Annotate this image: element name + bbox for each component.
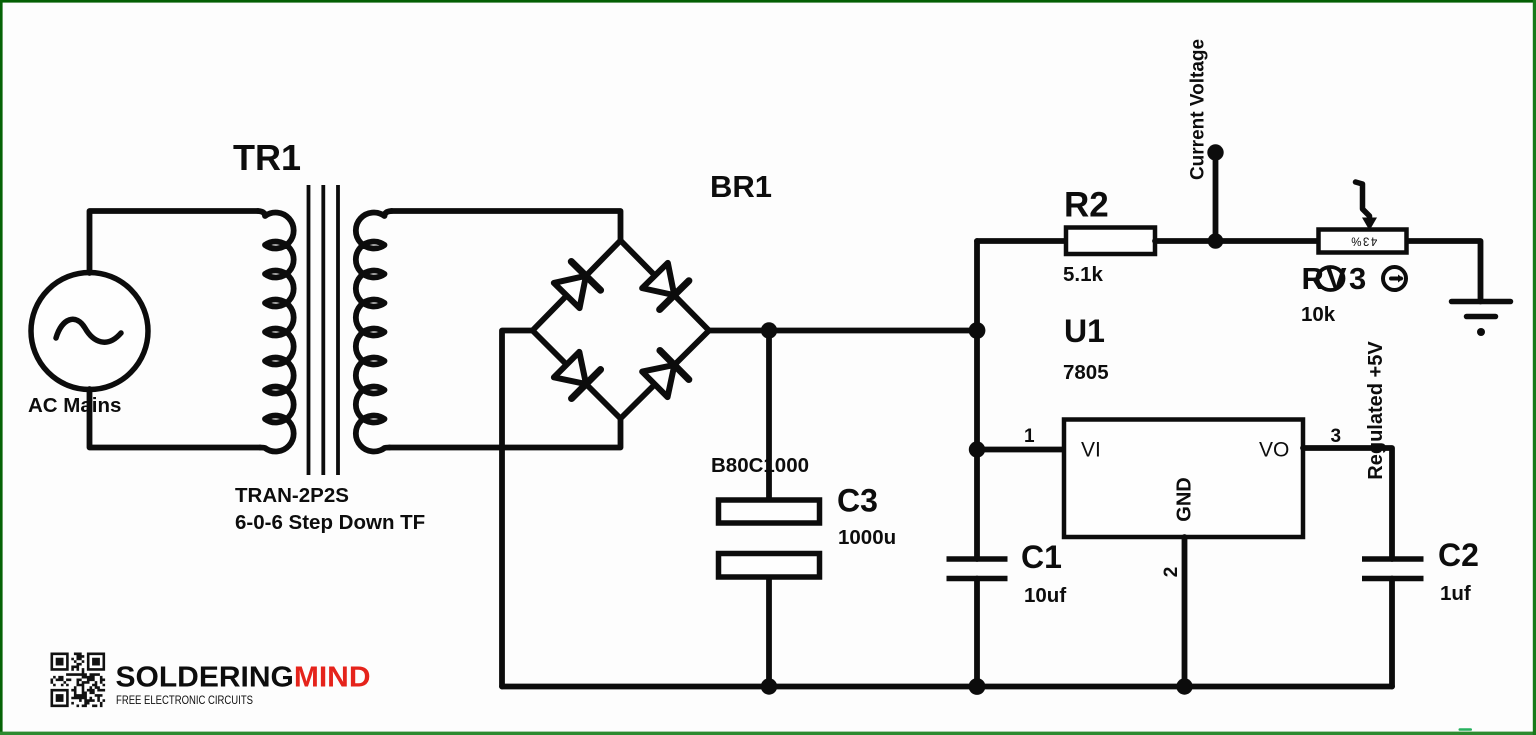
- junction dot C1 ground: [969, 678, 986, 695]
- potentiometer RV3 body: [1319, 230, 1407, 253]
- svg-text:B80C1000: B80C1000: [711, 454, 809, 477]
- svg-text:TRAN-2P2S: TRAN-2P2S: [235, 484, 349, 507]
- wire pin 3 to C2: [1303, 448, 1392, 559]
- svg-text:SOLDERINGMIND: SOLDERINGMIND: [116, 662, 371, 694]
- wire C3 top lead: [766, 331, 772, 500]
- svg-text:AC Mains: AC Mains: [28, 394, 121, 417]
- svg-text:6-0-6 Step Down TF: 6-0-6 Step Down TF: [235, 511, 425, 534]
- wire C2 bottom lead: [1389, 579, 1395, 687]
- svg-text:BR1: BR1: [710, 169, 772, 204]
- wire main vertical input: [974, 241, 980, 559]
- diode D4 bottom-right: [640, 350, 688, 398]
- junction dot current tap: [1208, 233, 1224, 249]
- junction dot pin1 tap: [969, 441, 985, 457]
- svg-text:10uf: 10uf: [1024, 584, 1066, 607]
- svg-text:1000u: 1000u: [838, 526, 896, 549]
- junction dot C3 tap: [761, 322, 777, 338]
- regulator U1 box: [1064, 420, 1303, 538]
- RV3 circle-arrow symbol: [1383, 267, 1406, 290]
- wire C3 bottom lead: [766, 578, 772, 687]
- svg-text:VI: VI: [1081, 439, 1101, 462]
- svg-text:U1: U1: [1064, 313, 1105, 349]
- wire R2 to RV3: [1155, 238, 1317, 244]
- junction dot C3 ground: [761, 678, 777, 694]
- diode D1 top-left: [552, 262, 601, 310]
- capacitor C1 plates: [947, 559, 1008, 579]
- wire pin 1: [977, 447, 1066, 453]
- transformer TR1 secondary winding: [356, 211, 392, 452]
- wire RV3 to ground: [1409, 241, 1481, 302]
- svg-text:3: 3: [1331, 426, 1342, 447]
- capacitor C3 plates: [719, 500, 820, 577]
- wire bridge left vertex down to ground rail: [502, 331, 533, 687]
- wire C1 bottom lead: [974, 579, 980, 687]
- RV3 wiper arrow: [1356, 182, 1378, 231]
- svg-text:C2: C2: [1438, 537, 1479, 573]
- wire R2 left lead: [977, 238, 1066, 244]
- wire AC bottom to primary: [90, 389, 261, 448]
- svg-text:R2: R2: [1064, 186, 1109, 225]
- svg-text:VO: VO: [1259, 439, 1289, 462]
- wire secondary bottom to bridge bottom vertex: [390, 419, 621, 448]
- svg-text:43%: 43%: [1350, 235, 1378, 247]
- green artifact dash bottom right: [1459, 728, 1473, 731]
- transformer TR1 core: [309, 185, 339, 475]
- svg-text:TR1: TR1: [233, 137, 301, 178]
- svg-text:Current Voltage: Current Voltage: [1188, 39, 1209, 180]
- svg-text:2: 2: [1161, 567, 1182, 578]
- resistor R2 body: [1066, 228, 1155, 255]
- AC source V1 circle: [31, 273, 148, 390]
- svg-text:1uf: 1uf: [1440, 582, 1471, 605]
- bridge rectifier BR1 diamond: [533, 241, 710, 419]
- RV3 scribble ellipse over V: [1318, 267, 1344, 290]
- ground rail wire: [502, 684, 1392, 690]
- diode D2 top-right: [640, 261, 689, 309]
- svg-text:5.1k: 5.1k: [1063, 263, 1103, 286]
- capacitor C2 plates: [1362, 559, 1424, 579]
- wire pin 2: [1182, 537, 1188, 687]
- diode D3 bottom-left: [552, 350, 600, 398]
- svg-text:1: 1: [1024, 426, 1035, 447]
- svg-text:GND: GND: [1174, 477, 1196, 521]
- wire bridge output to node: [709, 328, 977, 334]
- svg-text:7805: 7805: [1063, 361, 1109, 384]
- svg-text:10k: 10k: [1301, 303, 1336, 326]
- wire current voltage stub: [1213, 153, 1219, 242]
- node Current Voltage terminal dot: [1207, 144, 1223, 160]
- logo QR code: [51, 653, 106, 708]
- transformer TR1 primary winding: [258, 211, 294, 452]
- svg-text:C3: C3: [837, 483, 878, 519]
- wire secondary top to bridge: [392, 211, 621, 241]
- svg-text:Regulated +5V: Regulated +5V: [1365, 341, 1387, 480]
- svg-text:C1: C1: [1021, 539, 1062, 575]
- junction dot main node: [969, 322, 986, 339]
- ground symbol: [1452, 302, 1511, 337]
- svg-text:FREE ELECTRONIC CIRCUITS: FREE ELECTRONIC CIRCUITS: [116, 695, 253, 707]
- wire AC top to primary: [90, 211, 259, 273]
- junction dot pin2 ground: [1176, 678, 1192, 694]
